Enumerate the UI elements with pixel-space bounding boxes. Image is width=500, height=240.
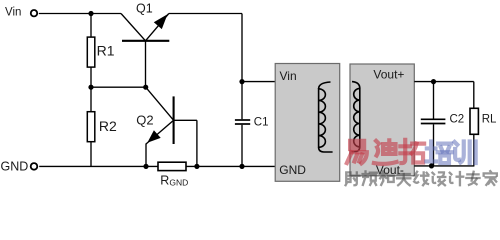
watermark char 易 — [347, 141, 367, 163]
watermark char 迪 — [374, 140, 397, 164]
watermark char 和 — [380, 171, 394, 185]
wire RL to bottom rail — [473, 134, 475, 166]
wire top right corner down — [241, 14, 243, 120]
svg-text:Vout+: Vout+ — [373, 68, 404, 82]
resistor R2 — [87, 112, 95, 142]
secondary winding L2 — [352, 82, 360, 89]
node H junction dot (C2 top) — [431, 79, 436, 84]
GND rail left segment — [39, 165, 158, 167]
svg-text:RGND: RGND — [160, 174, 188, 188]
transistor Q1 base bar — [122, 40, 169, 42]
wire Vout- rail — [414, 165, 474, 167]
transistor Q1 base lead down — [145, 41, 147, 87]
wire C2 bottom lead — [433, 124, 435, 166]
capacitor C2 top plate — [421, 118, 446, 120]
svg-text:R2: R2 — [99, 118, 117, 134]
transistor Q1 emitter arrow — [154, 14, 168, 29]
watermark char 专 — [466, 172, 479, 185]
GND rail right segment to converter box — [186, 165, 275, 167]
capacitor C1 top plate — [235, 119, 250, 121]
capacitor C2 bottom plate — [421, 123, 446, 125]
Vin terminal circle — [31, 10, 37, 16]
node E junction dot (C1 bottom on GND rail) — [239, 164, 244, 169]
node G junction dot (Q2 base on GND rail) — [194, 164, 199, 169]
watermark char 家 — [484, 171, 497, 185]
wire node A down to R1 — [90, 14, 92, 38]
wire R2 to GND rail — [90, 142, 92, 167]
converter box 1 (primary side) — [275, 64, 340, 182]
transistor Q2 collector lead — [146, 87, 174, 120]
node F junction dot (Q2 emitter on GND rail) — [143, 164, 148, 169]
node D junction dot (C1 top / converter Vin) — [239, 79, 244, 84]
transistor Q2 base lead right — [174, 119, 197, 121]
resistor RL — [470, 108, 478, 134]
svg-text:RL: RL — [482, 113, 497, 125]
wire node D to converter box Vin pin — [242, 81, 275, 83]
wire Q2 base down to GND rail — [196, 120, 198, 166]
wire Vout+ to load corner — [414, 81, 474, 83]
watermark char 拓 — [400, 140, 424, 163]
wire C2 top lead — [433, 82, 435, 120]
converter box 2 (secondary side) — [350, 64, 414, 176]
svg-text:C2: C2 — [450, 113, 465, 125]
svg-text:Vin: Vin — [5, 7, 21, 19]
wire Q1 emitter to top right corner — [169, 13, 242, 15]
wire R1 to node B — [90, 67, 92, 87]
transistor Q2 base bar — [173, 96, 175, 144]
watermark char 训 — [455, 141, 476, 163]
svg-text:GND: GND — [279, 163, 306, 177]
resistor R1 — [87, 37, 95, 67]
watermark char 射 — [346, 172, 360, 185]
node C junction dot (Q1 base / Q2 collector) — [143, 85, 148, 90]
resistor RGND — [158, 162, 186, 170]
wire C1 to GND rail — [241, 125, 243, 167]
svg-text:Vin: Vin — [280, 69, 297, 83]
wire Vin to node A — [39, 13, 121, 15]
watermark char 计 — [450, 172, 464, 185]
wire Q2 emitter down to GND rail — [145, 144, 147, 167]
svg-text:GND: GND — [1, 160, 29, 174]
watermark char 线 — [414, 172, 428, 186]
node B junction dot (R1/R2 divider) — [88, 85, 93, 90]
capacitor C1 bottom plate — [235, 123, 250, 125]
watermark char 培 — [426, 141, 451, 163]
node I junction dot (C2 bottom) — [429, 163, 434, 168]
svg-text:R1: R1 — [97, 42, 115, 58]
primary winding L1 — [319, 82, 331, 89]
watermark char 设 — [432, 172, 445, 185]
watermark char 频 — [363, 171, 377, 185]
svg-text:C1: C1 — [254, 116, 269, 128]
wire node B down to R2 — [90, 87, 92, 112]
wire right corner down to RL — [473, 82, 475, 109]
watermark char 天 — [397, 174, 410, 185]
transistor Q1 emitter lead — [146, 14, 169, 41]
transistor Q2 emitter lead — [146, 120, 174, 144]
wire node B to Q2 collector node — [91, 86, 146, 88]
transistor Q2 emitter arrow — [147, 130, 160, 143]
watermark line 1: 易迪拓 (red) 培训 (blue) — [347, 140, 476, 164]
GND terminal circle — [31, 163, 38, 170]
watermark line 2: 射频和天线设计专家 (gray) — [346, 171, 497, 185]
node A junction dot (Vin rail / R1 top) — [88, 11, 93, 16]
svg-text:Q2: Q2 — [136, 113, 153, 128]
svg-text:Q1: Q1 — [136, 2, 153, 16]
transistor Q1 collector lead — [121, 14, 146, 41]
